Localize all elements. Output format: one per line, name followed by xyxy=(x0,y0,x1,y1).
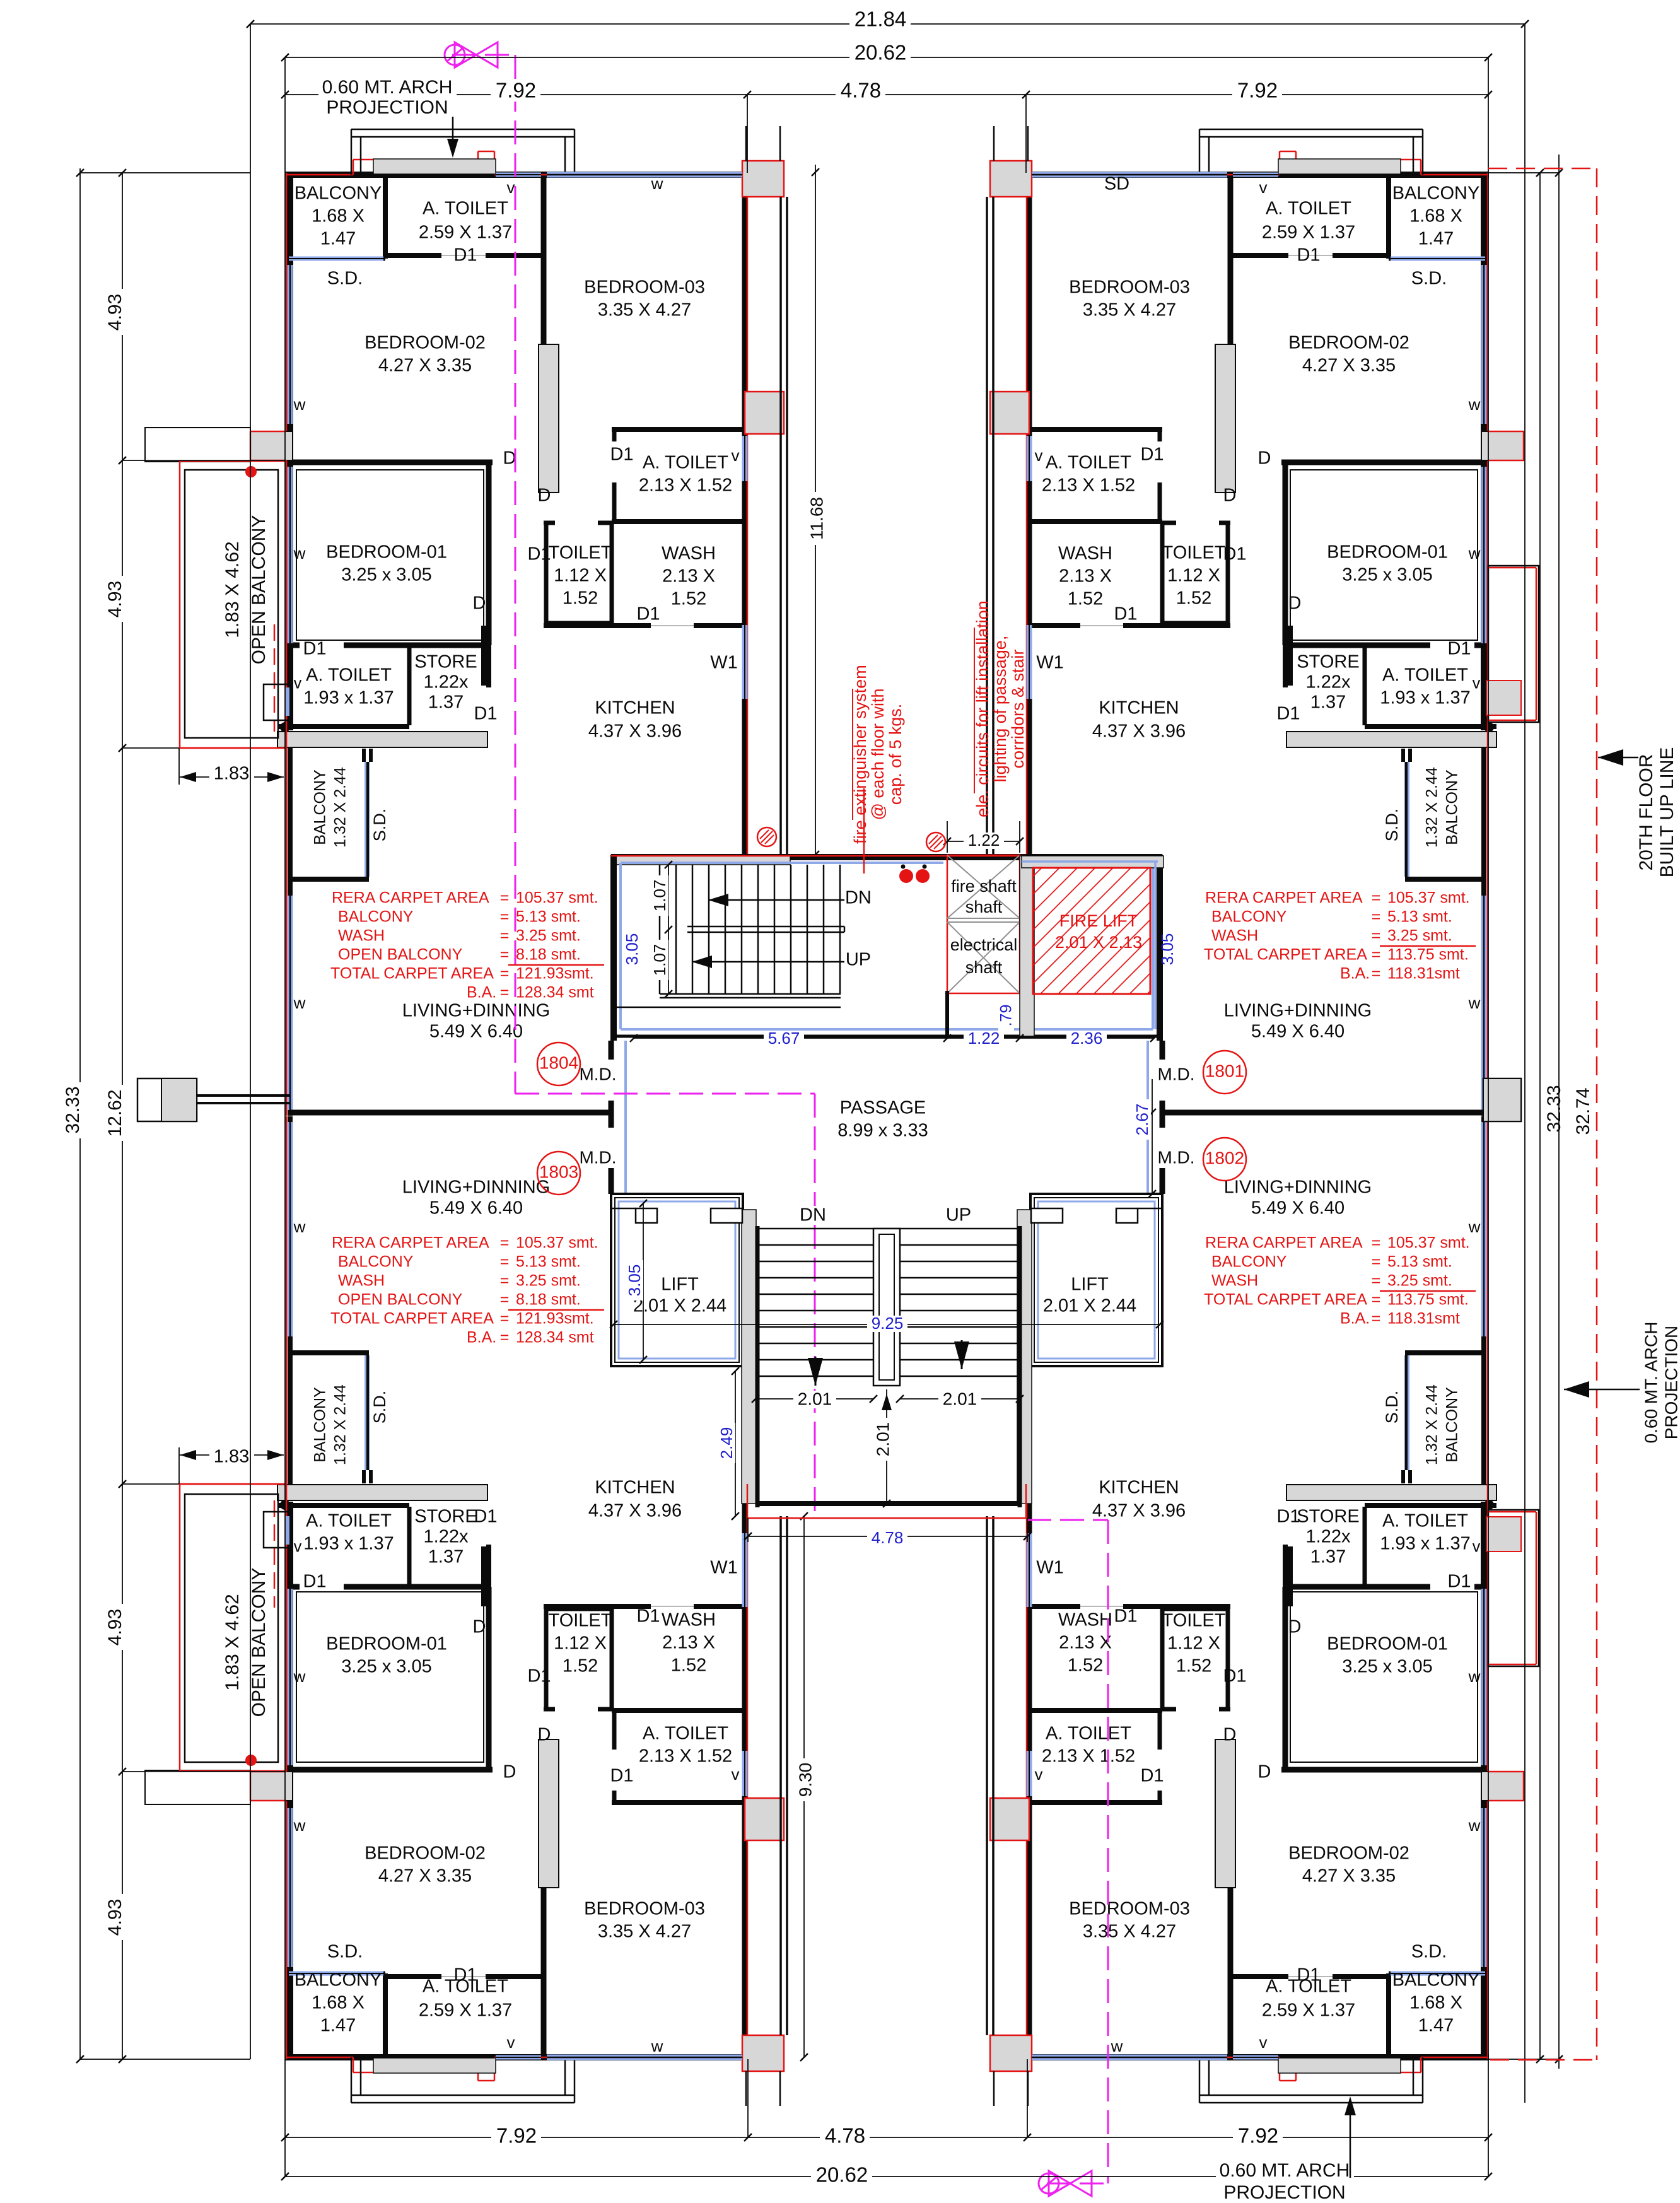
svg-text:BEDROOM-01: BEDROOM-01 xyxy=(326,1634,447,1654)
svg-text:S.D.: S.D. xyxy=(327,269,363,289)
svg-text:D: D xyxy=(1258,1762,1271,1782)
svg-text:5.49 X 6.40: 5.49 X 6.40 xyxy=(429,1198,523,1218)
svg-text:2.59 X 1.37: 2.59 X 1.37 xyxy=(1262,223,1355,243)
svg-text:1804: 1804 xyxy=(539,1053,578,1072)
svg-text:4.37 X 3.96: 4.37 X 3.96 xyxy=(1092,722,1186,742)
svg-text:corridors & stair: corridors & stair xyxy=(1008,649,1027,768)
svg-text:3.35 X 4.27: 3.35 X 4.27 xyxy=(1083,1922,1176,1942)
svg-text:1.52: 1.52 xyxy=(671,1656,706,1676)
svg-text:2.59 X 1.37: 2.59 X 1.37 xyxy=(1262,2001,1355,2021)
svg-text:0.60 MT. ARCH: 0.60 MT. ARCH xyxy=(1641,1322,1660,1444)
svg-text:1.68 X: 1.68 X xyxy=(1409,206,1462,226)
svg-text:M.D.: M.D. xyxy=(1157,1064,1194,1084)
svg-text:W1: W1 xyxy=(710,653,738,673)
svg-text:1.52: 1.52 xyxy=(563,588,598,609)
svg-text:ele. circuits for lift install: ele. circuits for lift installation xyxy=(973,600,992,817)
svg-text:A. TOILET: A. TOILET xyxy=(1046,453,1131,473)
svg-text:=: = xyxy=(500,1234,510,1252)
svg-text:w: w xyxy=(1468,544,1481,563)
svg-text:v: v xyxy=(294,1538,302,1556)
svg-text:S.D.: S.D. xyxy=(370,809,389,842)
svg-text:5.13 smt.: 5.13 smt. xyxy=(1387,908,1452,926)
svg-text:A. TOILET: A. TOILET xyxy=(1382,1511,1468,1531)
svg-text:1.52: 1.52 xyxy=(671,589,706,609)
svg-text:w: w xyxy=(1468,993,1481,1012)
svg-text:D: D xyxy=(473,593,486,614)
svg-text:D: D xyxy=(538,1725,551,1745)
svg-text:WASH: WASH xyxy=(662,1610,716,1630)
svg-text:1.07: 1.07 xyxy=(650,944,669,976)
svg-text:S.D.: S.D. xyxy=(1382,809,1401,842)
svg-text:D1: D1 xyxy=(1223,1666,1246,1686)
svg-text:118.31smt: 118.31smt xyxy=(1387,965,1460,983)
svg-text:v: v xyxy=(732,1765,740,1784)
svg-text:D: D xyxy=(538,486,551,506)
svg-text:2.13 X: 2.13 X xyxy=(1059,566,1112,587)
svg-text:BEDROOM-03: BEDROOM-03 xyxy=(1069,1899,1190,1919)
svg-text:D: D xyxy=(1288,1617,1302,1637)
svg-text:BALCONY: BALCONY xyxy=(312,769,329,845)
svg-text:BUILT UP LINE: BUILT UP LINE xyxy=(1657,747,1677,878)
svg-text:5.49 X 6.40: 5.49 X 6.40 xyxy=(1251,1022,1345,1042)
svg-text:STORE: STORE xyxy=(414,652,477,672)
svg-text:D1: D1 xyxy=(303,639,326,659)
svg-text:W1: W1 xyxy=(1036,653,1064,673)
svg-text:D: D xyxy=(503,1762,516,1782)
svg-text:WASH: WASH xyxy=(1058,544,1112,564)
svg-text:3.25 smt.: 3.25 smt. xyxy=(516,1272,581,1290)
svg-text:w: w xyxy=(293,544,306,563)
svg-text:=: = xyxy=(1372,1272,1381,1290)
svg-text:D: D xyxy=(1288,593,1302,614)
svg-text:1.83: 1.83 xyxy=(214,764,249,784)
svg-text:BALCONY: BALCONY xyxy=(1392,184,1480,204)
svg-text:cap. of 5 kgs.: cap. of 5 kgs. xyxy=(886,704,905,805)
svg-text:1.32 X 2.44: 1.32 X 2.44 xyxy=(332,767,349,848)
svg-text:8.18 smt.: 8.18 smt. xyxy=(516,1291,581,1309)
svg-text:8.99 x 3.33: 8.99 x 3.33 xyxy=(837,1121,928,1141)
svg-text:=: = xyxy=(1372,946,1381,964)
svg-text:lighting of passage,: lighting of passage, xyxy=(991,636,1010,783)
svg-text:w: w xyxy=(293,1217,306,1236)
svg-text:3.05: 3.05 xyxy=(1158,933,1177,966)
svg-text:3.25 smt.: 3.25 smt. xyxy=(516,927,581,945)
svg-text:BEDROOM-02: BEDROOM-02 xyxy=(365,333,486,353)
svg-text:=: = xyxy=(1372,1310,1381,1328)
svg-text:3.25 smt.: 3.25 smt. xyxy=(1387,1272,1452,1290)
svg-text:D1: D1 xyxy=(1276,704,1300,724)
svg-text:A. TOILET: A. TOILET xyxy=(1382,665,1468,686)
svg-text:1.32 X 2.44: 1.32 X 2.44 xyxy=(1423,767,1441,848)
svg-text:2.59 X 1.37: 2.59 X 1.37 xyxy=(419,2001,512,2021)
svg-text:PROJECTION: PROJECTION xyxy=(326,97,448,118)
svg-text:2.13 X: 2.13 X xyxy=(1059,1633,1112,1653)
svg-text:=: = xyxy=(1372,1253,1381,1271)
svg-text:3.35 X 4.27: 3.35 X 4.27 xyxy=(598,1922,691,1942)
svg-text:B.A.: B.A. xyxy=(467,984,496,1002)
svg-text:RERA CARPET AREA: RERA CARPET AREA xyxy=(332,889,489,907)
svg-text:RERA CARPET AREA: RERA CARPET AREA xyxy=(1205,889,1363,907)
svg-text:1.68 X: 1.68 X xyxy=(1409,1993,1462,2013)
svg-text:S.D.: S.D. xyxy=(1411,1942,1447,1962)
svg-text:2.49: 2.49 xyxy=(717,1427,736,1459)
svg-text:BEDROOM-01: BEDROOM-01 xyxy=(326,542,447,563)
svg-text:LIVING+DINNING: LIVING+DINNING xyxy=(1224,1177,1372,1198)
svg-text:PROJECTION: PROJECTION xyxy=(1661,1326,1680,1439)
svg-text:32.33: 32.33 xyxy=(62,1086,83,1133)
svg-text:D1: D1 xyxy=(636,604,660,624)
svg-text:1.68 X: 1.68 X xyxy=(312,1993,365,2013)
svg-text:4.37 X 3.96: 4.37 X 3.96 xyxy=(588,722,682,742)
svg-text:A. TOILET: A. TOILET xyxy=(1266,199,1351,219)
svg-text:1.32 X 2.44: 1.32 X 2.44 xyxy=(1423,1384,1441,1465)
svg-text:KITCHEN: KITCHEN xyxy=(1099,1478,1179,1498)
svg-text:1.32 X 2.44: 1.32 X 2.44 xyxy=(332,1384,349,1465)
svg-text:W1: W1 xyxy=(1036,1558,1064,1578)
svg-text:D: D xyxy=(1223,486,1237,506)
svg-text:1.47: 1.47 xyxy=(320,2016,356,2036)
svg-text:9.25: 9.25 xyxy=(872,1314,904,1333)
svg-text:D: D xyxy=(503,448,516,469)
svg-text:UP: UP xyxy=(946,1205,971,1225)
svg-text:=: = xyxy=(500,946,510,964)
svg-text:TOILET: TOILET xyxy=(1162,1611,1226,1631)
svg-text:A. TOILET: A. TOILET xyxy=(643,1724,728,1744)
svg-text:1802: 1802 xyxy=(1205,1148,1244,1167)
svg-text:OPEN BALCONY: OPEN BALCONY xyxy=(338,946,463,964)
svg-text:4.27 X 3.35: 4.27 X 3.35 xyxy=(1302,356,1396,376)
svg-text:2.13 X 1.52: 2.13 X 1.52 xyxy=(1042,476,1135,496)
svg-text:WASH: WASH xyxy=(662,544,716,564)
svg-text:D1: D1 xyxy=(1297,245,1320,266)
svg-text:=: = xyxy=(1372,1291,1381,1309)
svg-text:1.52: 1.52 xyxy=(563,1656,598,1676)
svg-text:D1: D1 xyxy=(303,1572,326,1592)
svg-text:TOTAL CARPET AREA: TOTAL CARPET AREA xyxy=(330,1310,494,1328)
svg-text:D1: D1 xyxy=(1447,1572,1471,1592)
svg-text:LIFT: LIFT xyxy=(661,1275,699,1295)
svg-text:1.52: 1.52 xyxy=(1068,589,1103,609)
svg-text:TOTAL CARPET AREA: TOTAL CARPET AREA xyxy=(1204,1291,1367,1309)
svg-text:=: = xyxy=(500,984,510,1002)
svg-text:OPEN BALCONY: OPEN BALCONY xyxy=(248,1568,269,1717)
svg-text:5.67: 5.67 xyxy=(768,1029,800,1048)
svg-text:=: = xyxy=(500,1329,510,1347)
svg-text:w: w xyxy=(651,174,663,193)
svg-text:B.A.: B.A. xyxy=(467,1329,496,1347)
svg-text:fire shaft: fire shaft xyxy=(951,877,1017,896)
svg-text:D: D xyxy=(1258,448,1271,469)
svg-text:3.05: 3.05 xyxy=(625,1265,644,1297)
svg-text:KITCHEN: KITCHEN xyxy=(595,1478,675,1498)
svg-text:A. TOILET: A. TOILET xyxy=(423,199,508,219)
svg-text:TOTAL CARPET AREA: TOTAL CARPET AREA xyxy=(330,965,494,983)
svg-text:BEDROOM-03: BEDROOM-03 xyxy=(584,1899,705,1919)
svg-text:B.A.: B.A. xyxy=(1340,1310,1370,1328)
svg-text:WASH: WASH xyxy=(338,1272,385,1290)
svg-text:A. TOILET: A. TOILET xyxy=(306,665,392,686)
svg-text:BALCONY: BALCONY xyxy=(312,1387,329,1463)
svg-text:w: w xyxy=(293,1667,306,1686)
svg-text:1.07: 1.07 xyxy=(650,880,669,912)
svg-text:v: v xyxy=(1035,446,1043,465)
svg-text:1.93 x 1.37: 1.93 x 1.37 xyxy=(303,1534,394,1554)
svg-text:128.34 smt: 128.34 smt xyxy=(516,1329,594,1347)
svg-text:FIRE LIFT: FIRE LIFT xyxy=(1059,911,1138,930)
svg-text:2.01 X 2.13: 2.01 X 2.13 xyxy=(1055,933,1142,952)
svg-text:w: w xyxy=(651,2036,663,2055)
svg-text:1.37: 1.37 xyxy=(1310,1547,1346,1567)
svg-text:A. TOILET: A. TOILET xyxy=(1046,1724,1131,1744)
svg-text:v: v xyxy=(507,178,515,197)
svg-text:STORE: STORE xyxy=(414,1507,477,1527)
svg-text:KITCHEN: KITCHEN xyxy=(595,698,675,718)
svg-text:1.47: 1.47 xyxy=(1418,229,1454,249)
svg-text:2.01: 2.01 xyxy=(798,1389,832,1408)
svg-text:WASH: WASH xyxy=(338,927,385,945)
svg-text:20.62: 20.62 xyxy=(855,41,907,64)
svg-text:BEDROOM-01: BEDROOM-01 xyxy=(1327,1634,1448,1654)
svg-text:2.13 X: 2.13 X xyxy=(662,1633,715,1653)
svg-text:D1: D1 xyxy=(636,1606,660,1627)
svg-text:1.93 x 1.37: 1.93 x 1.37 xyxy=(303,688,394,708)
svg-text:1.12 X: 1.12 X xyxy=(554,1633,607,1654)
svg-text:1.83 X 4.62: 1.83 X 4.62 xyxy=(222,541,243,638)
svg-text:4.27 X 3.35: 4.27 X 3.35 xyxy=(378,356,472,376)
svg-text:4.78: 4.78 xyxy=(841,79,881,102)
svg-text:D1: D1 xyxy=(527,1666,551,1686)
svg-text:TOILET: TOILET xyxy=(549,543,612,563)
svg-text:=: = xyxy=(500,1310,510,1328)
svg-text:OPEN BALCONY: OPEN BALCONY xyxy=(338,1291,463,1309)
svg-text:1.12 X: 1.12 X xyxy=(1167,566,1220,586)
svg-text:D1: D1 xyxy=(1140,1766,1164,1786)
svg-text:2.13 X: 2.13 X xyxy=(662,566,715,587)
svg-text:LIVING+DINNING: LIVING+DINNING xyxy=(402,1001,550,1021)
svg-text:=: = xyxy=(500,908,510,926)
svg-text:BALCONY: BALCONY xyxy=(295,1970,382,1990)
svg-text:BALCONY: BALCONY xyxy=(338,1253,414,1271)
svg-text:1.37: 1.37 xyxy=(428,1547,464,1567)
svg-text:105.37 smt.: 105.37 smt. xyxy=(516,1234,598,1252)
svg-text:4.37 X 3.96: 4.37 X 3.96 xyxy=(1092,1501,1186,1521)
svg-text:1.37: 1.37 xyxy=(1310,692,1346,713)
svg-text:=: = xyxy=(500,927,510,945)
svg-text:7.92: 7.92 xyxy=(496,2124,537,2147)
svg-text:electrical: electrical xyxy=(950,935,1018,954)
svg-text:M.D.: M.D. xyxy=(579,1147,616,1167)
svg-text:4.27 X 3.35: 4.27 X 3.35 xyxy=(1302,1866,1396,1886)
svg-text:5.13 smt.: 5.13 smt. xyxy=(516,1253,581,1271)
svg-text:3.25 smt.: 3.25 smt. xyxy=(1387,927,1452,945)
svg-text:D1: D1 xyxy=(1140,445,1164,465)
svg-text:1.22x: 1.22x xyxy=(1306,672,1351,692)
svg-text:4.93: 4.93 xyxy=(105,581,125,617)
svg-text:BALCONY: BALCONY xyxy=(295,184,382,204)
svg-text:2.01: 2.01 xyxy=(873,1422,892,1457)
svg-text:=: = xyxy=(1372,908,1381,926)
svg-text:STORE: STORE xyxy=(1297,1507,1359,1527)
svg-text:=: = xyxy=(500,1253,510,1271)
svg-text:A. TOILET: A. TOILET xyxy=(306,1511,392,1531)
svg-text:WASH: WASH xyxy=(1211,1272,1258,1290)
svg-text:1.22x: 1.22x xyxy=(424,1527,469,1547)
svg-text:1801: 1801 xyxy=(1205,1061,1244,1080)
svg-text:2.13 X 1.52: 2.13 X 1.52 xyxy=(639,476,732,496)
svg-text:0.60 MT. ARCH: 0.60 MT. ARCH xyxy=(322,77,453,98)
svg-text:=: = xyxy=(1372,965,1381,983)
svg-text:@ each floor with: @ each floor with xyxy=(868,689,887,821)
svg-text:W1: W1 xyxy=(710,1558,738,1578)
svg-text:7.92: 7.92 xyxy=(1238,2124,1278,2147)
svg-text:D: D xyxy=(473,1617,486,1637)
svg-text:=: = xyxy=(500,1272,510,1290)
svg-text:D1: D1 xyxy=(474,1507,497,1527)
svg-text:TOILET: TOILET xyxy=(1162,543,1226,563)
svg-text:2.01 X 2.44: 2.01 X 2.44 xyxy=(1043,1296,1136,1316)
svg-text:WASH: WASH xyxy=(1211,927,1258,945)
svg-text:BEDROOM-03: BEDROOM-03 xyxy=(1069,278,1190,298)
svg-text:9.30: 9.30 xyxy=(795,1763,815,1797)
svg-text:=: = xyxy=(1372,889,1381,907)
svg-text:=: = xyxy=(1372,927,1381,945)
svg-text:D1: D1 xyxy=(1223,544,1246,564)
svg-text:w: w xyxy=(1468,1217,1481,1236)
svg-text:5.49 X 6.40: 5.49 X 6.40 xyxy=(429,1022,523,1042)
svg-text:3.25 x 3.05: 3.25 x 3.05 xyxy=(1342,1657,1433,1677)
svg-text:WASH: WASH xyxy=(1058,1610,1112,1630)
svg-text:1.22x: 1.22x xyxy=(424,672,469,692)
svg-text:2.59 X 1.37: 2.59 X 1.37 xyxy=(419,223,512,243)
svg-text:LIVING+DINNING: LIVING+DINNING xyxy=(1224,1001,1372,1021)
svg-text:1.52: 1.52 xyxy=(1176,1656,1211,1676)
svg-text:20TH FLOOR: 20TH FLOOR xyxy=(1636,754,1657,870)
svg-text:1.37: 1.37 xyxy=(428,692,464,713)
svg-text:w: w xyxy=(1468,395,1481,414)
svg-text:D1: D1 xyxy=(1114,1606,1137,1627)
svg-text:shaft: shaft xyxy=(965,897,1003,916)
svg-text:8.18 smt.: 8.18 smt. xyxy=(516,946,581,964)
svg-text:D1: D1 xyxy=(453,245,477,266)
svg-text:D1: D1 xyxy=(1297,1965,1320,1985)
svg-text:v: v xyxy=(1259,178,1268,197)
svg-text:w: w xyxy=(293,1816,306,1835)
svg-text:=: = xyxy=(500,965,510,983)
svg-text:BALCONY: BALCONY xyxy=(1444,769,1461,845)
svg-text:S.D.: S.D. xyxy=(370,1391,389,1424)
svg-text:BEDROOM-02: BEDROOM-02 xyxy=(365,1844,486,1864)
svg-text:3.25 x 3.05: 3.25 x 3.05 xyxy=(341,1657,432,1677)
svg-text:B.A.: B.A. xyxy=(1340,965,1370,983)
svg-text:0.60 MT. ARCH: 0.60 MT. ARCH xyxy=(1220,2160,1350,2181)
svg-text:32.33: 32.33 xyxy=(1544,1085,1565,1132)
svg-text:4.78: 4.78 xyxy=(825,2124,865,2147)
svg-text:w: w xyxy=(1111,2036,1123,2055)
svg-text:S.D.: S.D. xyxy=(327,1942,363,1962)
svg-text:12.62: 12.62 xyxy=(105,1089,125,1137)
svg-text:1.12 X: 1.12 X xyxy=(1167,1633,1220,1654)
svg-text:OPEN BALCONY: OPEN BALCONY xyxy=(248,515,269,665)
svg-text:BALCONY: BALCONY xyxy=(338,908,414,926)
svg-text:STORE: STORE xyxy=(1297,652,1359,672)
svg-text:v: v xyxy=(507,2033,515,2052)
svg-text:=: = xyxy=(500,889,510,907)
svg-text:v: v xyxy=(1473,1538,1481,1556)
svg-text:11.68: 11.68 xyxy=(807,497,826,540)
svg-text:PASSAGE: PASSAGE xyxy=(840,1098,926,1118)
svg-text:DN: DN xyxy=(845,888,872,908)
svg-text:2.13 X 1.52: 2.13 X 1.52 xyxy=(639,1746,732,1767)
svg-text:105.37 smt.: 105.37 smt. xyxy=(1387,889,1470,907)
svg-text:w: w xyxy=(1468,1816,1481,1835)
svg-text:113.75 smt.: 113.75 smt. xyxy=(1387,946,1469,964)
svg-text:LIFT: LIFT xyxy=(1071,1275,1109,1295)
svg-text:BEDROOM-02: BEDROOM-02 xyxy=(1288,333,1409,353)
svg-text:1.47: 1.47 xyxy=(320,229,356,249)
svg-text:shaft: shaft xyxy=(965,958,1003,977)
svg-text:D1: D1 xyxy=(1276,1507,1300,1527)
svg-text:BEDROOM-03: BEDROOM-03 xyxy=(584,278,705,298)
svg-text:7.92: 7.92 xyxy=(496,79,536,102)
svg-text:3.05: 3.05 xyxy=(622,933,641,966)
svg-text:2.36: 2.36 xyxy=(1071,1029,1103,1048)
svg-text:=: = xyxy=(1372,1234,1381,1252)
svg-text:D1: D1 xyxy=(1447,639,1471,659)
svg-text:1.68 X: 1.68 X xyxy=(312,206,365,226)
svg-text:D1: D1 xyxy=(610,445,633,465)
svg-text:5.13 smt.: 5.13 smt. xyxy=(516,908,581,926)
svg-text:1.83 X 4.62: 1.83 X 4.62 xyxy=(222,1594,243,1690)
svg-text:S.D.: S.D. xyxy=(1411,269,1447,289)
svg-text:v: v xyxy=(294,675,302,692)
svg-text:121.93smt.: 121.93smt. xyxy=(516,965,594,983)
svg-text:S.D.: S.D. xyxy=(1382,1391,1401,1424)
svg-text:DN: DN xyxy=(800,1205,826,1225)
svg-text:128.34 smt: 128.34 smt xyxy=(516,984,594,1002)
svg-text:3.25 x 3.05: 3.25 x 3.05 xyxy=(341,565,432,585)
svg-text:4.78: 4.78 xyxy=(872,1528,904,1547)
svg-text:2.13 X 1.52: 2.13 X 1.52 xyxy=(1042,1746,1135,1767)
svg-text:w: w xyxy=(1468,1667,1481,1686)
svg-text:BEDROOM-02: BEDROOM-02 xyxy=(1288,1844,1409,1864)
svg-text:=: = xyxy=(500,1291,510,1309)
svg-text:1.52: 1.52 xyxy=(1176,588,1211,609)
svg-text:w: w xyxy=(293,395,306,414)
svg-text:fire extinguisher system: fire extinguisher system xyxy=(851,665,870,844)
svg-text:SD: SD xyxy=(1104,174,1129,194)
svg-text:3.35 X 4.27: 3.35 X 4.27 xyxy=(1083,300,1176,320)
svg-text:v: v xyxy=(1259,2033,1268,2052)
svg-text:5.13 smt.: 5.13 smt. xyxy=(1387,1253,1452,1271)
svg-text:BALCONY: BALCONY xyxy=(1211,1253,1287,1271)
svg-text:LIVING+DINNING: LIVING+DINNING xyxy=(402,1177,550,1198)
svg-text:w: w xyxy=(293,993,306,1012)
svg-text:PROJECTION: PROJECTION xyxy=(1223,2182,1345,2200)
svg-text:5.49 X 6.40: 5.49 X 6.40 xyxy=(1251,1198,1345,1218)
svg-text:1.12 X: 1.12 X xyxy=(554,566,607,586)
svg-text:UP: UP xyxy=(846,950,871,970)
svg-text:v: v xyxy=(1473,675,1481,692)
svg-text:21.84: 21.84 xyxy=(855,8,907,31)
svg-text:1.22: 1.22 xyxy=(968,1029,1000,1048)
svg-text:v: v xyxy=(1035,1765,1043,1784)
svg-text:BALCONY: BALCONY xyxy=(1392,1970,1480,1990)
svg-text:7.92: 7.92 xyxy=(1237,79,1278,102)
svg-text:KITCHEN: KITCHEN xyxy=(1099,698,1179,718)
svg-text:D1: D1 xyxy=(527,544,551,564)
svg-text:D1: D1 xyxy=(453,1965,477,1985)
svg-text:RERA CARPET AREA: RERA CARPET AREA xyxy=(1205,1234,1363,1252)
